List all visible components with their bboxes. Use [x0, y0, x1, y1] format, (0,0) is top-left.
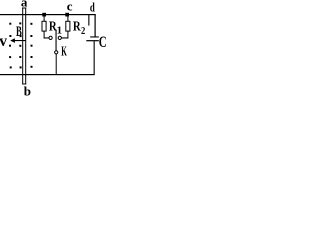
wire right side upper: [95, 14, 96, 37]
svg-text:K: K: [61, 44, 67, 59]
wire R2 bottom lead: [67, 31, 68, 37]
svg-text:c: c: [67, 0, 73, 14]
switch K blade: [56, 30, 57, 51]
wire right side lower: [94, 41, 95, 75]
svg-text:v: v: [0, 33, 7, 50]
svg-text:C: C: [99, 34, 106, 51]
svg-text:b: b: [24, 84, 31, 97]
svg-text:2: 2: [81, 26, 85, 37]
svg-text:1: 1: [57, 24, 63, 36]
junction node c at R2 top: [65, 13, 69, 17]
resistor R1: [42, 21, 46, 31]
wire top rail to R2: [67, 15, 68, 21]
capacitor C plate top: [90, 36, 99, 37]
wire from R1 to switch left contact: [44, 37, 49, 38]
velocity arrow v: [10, 38, 25, 43]
wire top rail a-c-d: [0, 14, 96, 15]
wire top rail to R1: [44, 15, 45, 21]
switch K right contact: [58, 36, 61, 39]
wire from switch pivot to bottom rail: [56, 54, 57, 74]
switch K pivot contact: [55, 51, 58, 54]
resistor R2: [66, 21, 70, 31]
capacitor C plate bottom: [86, 40, 99, 41]
switch K left contact: [49, 36, 52, 39]
svg-text:B: B: [16, 24, 22, 40]
field dots (B out of page): [9, 22, 33, 68]
junction node at R1 top: [42, 13, 46, 17]
wire stub below rail near d: [88, 15, 89, 26]
wire bottom rail: [0, 74, 95, 75]
svg-text:a: a: [21, 0, 28, 10]
wire from switch right contact to R2: [61, 37, 68, 38]
rod ab (sliding conductor): [22, 8, 26, 85]
wire R1 bottom lead: [44, 31, 45, 37]
svg-text:d: d: [90, 0, 95, 14]
